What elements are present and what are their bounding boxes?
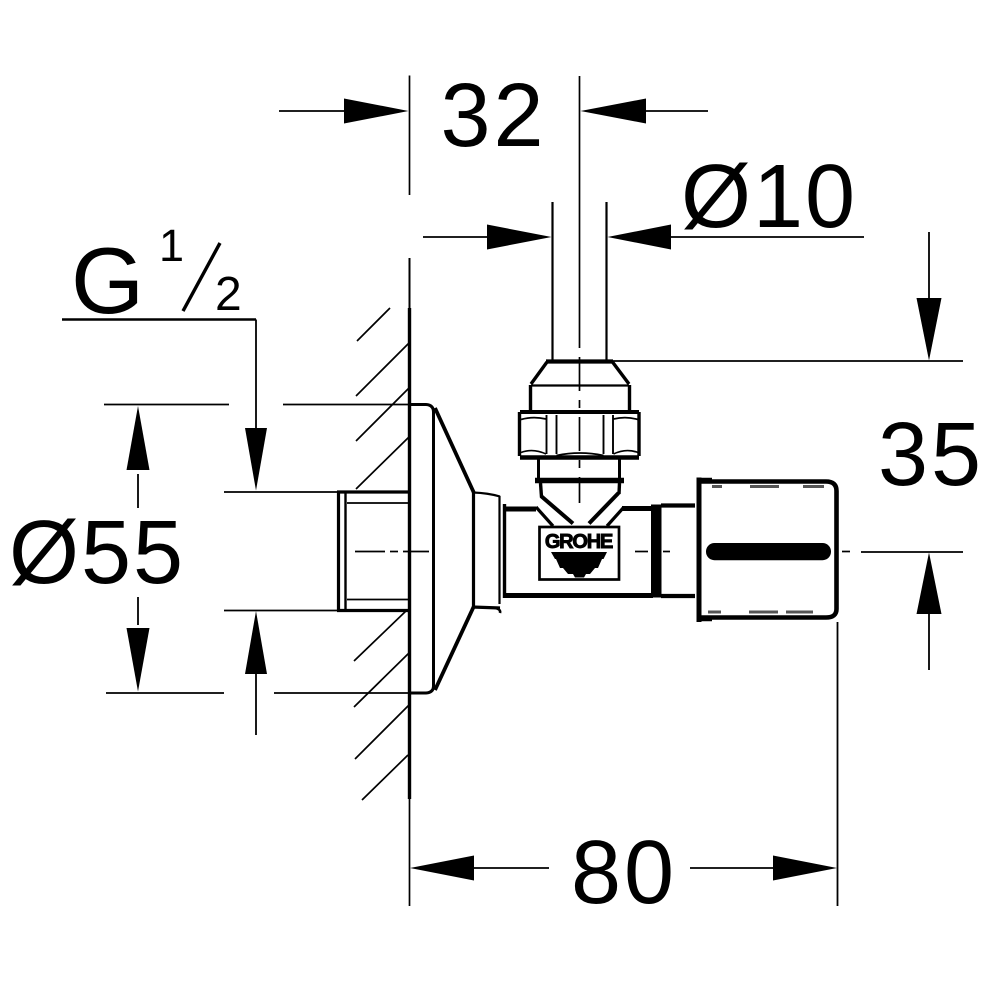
svg-text:2: 2 — [215, 268, 242, 321]
svg-text:80: 80 — [571, 823, 677, 923]
svg-text:G: G — [71, 228, 144, 333]
svg-text:GROHE: GROHE — [545, 531, 613, 553]
svg-text:32: 32 — [440, 66, 546, 166]
svg-text:Ø10: Ø10 — [681, 147, 857, 247]
svg-text:1: 1 — [159, 220, 184, 271]
svg-text:35: 35 — [878, 405, 984, 505]
svg-text:Ø55: Ø55 — [9, 503, 185, 603]
